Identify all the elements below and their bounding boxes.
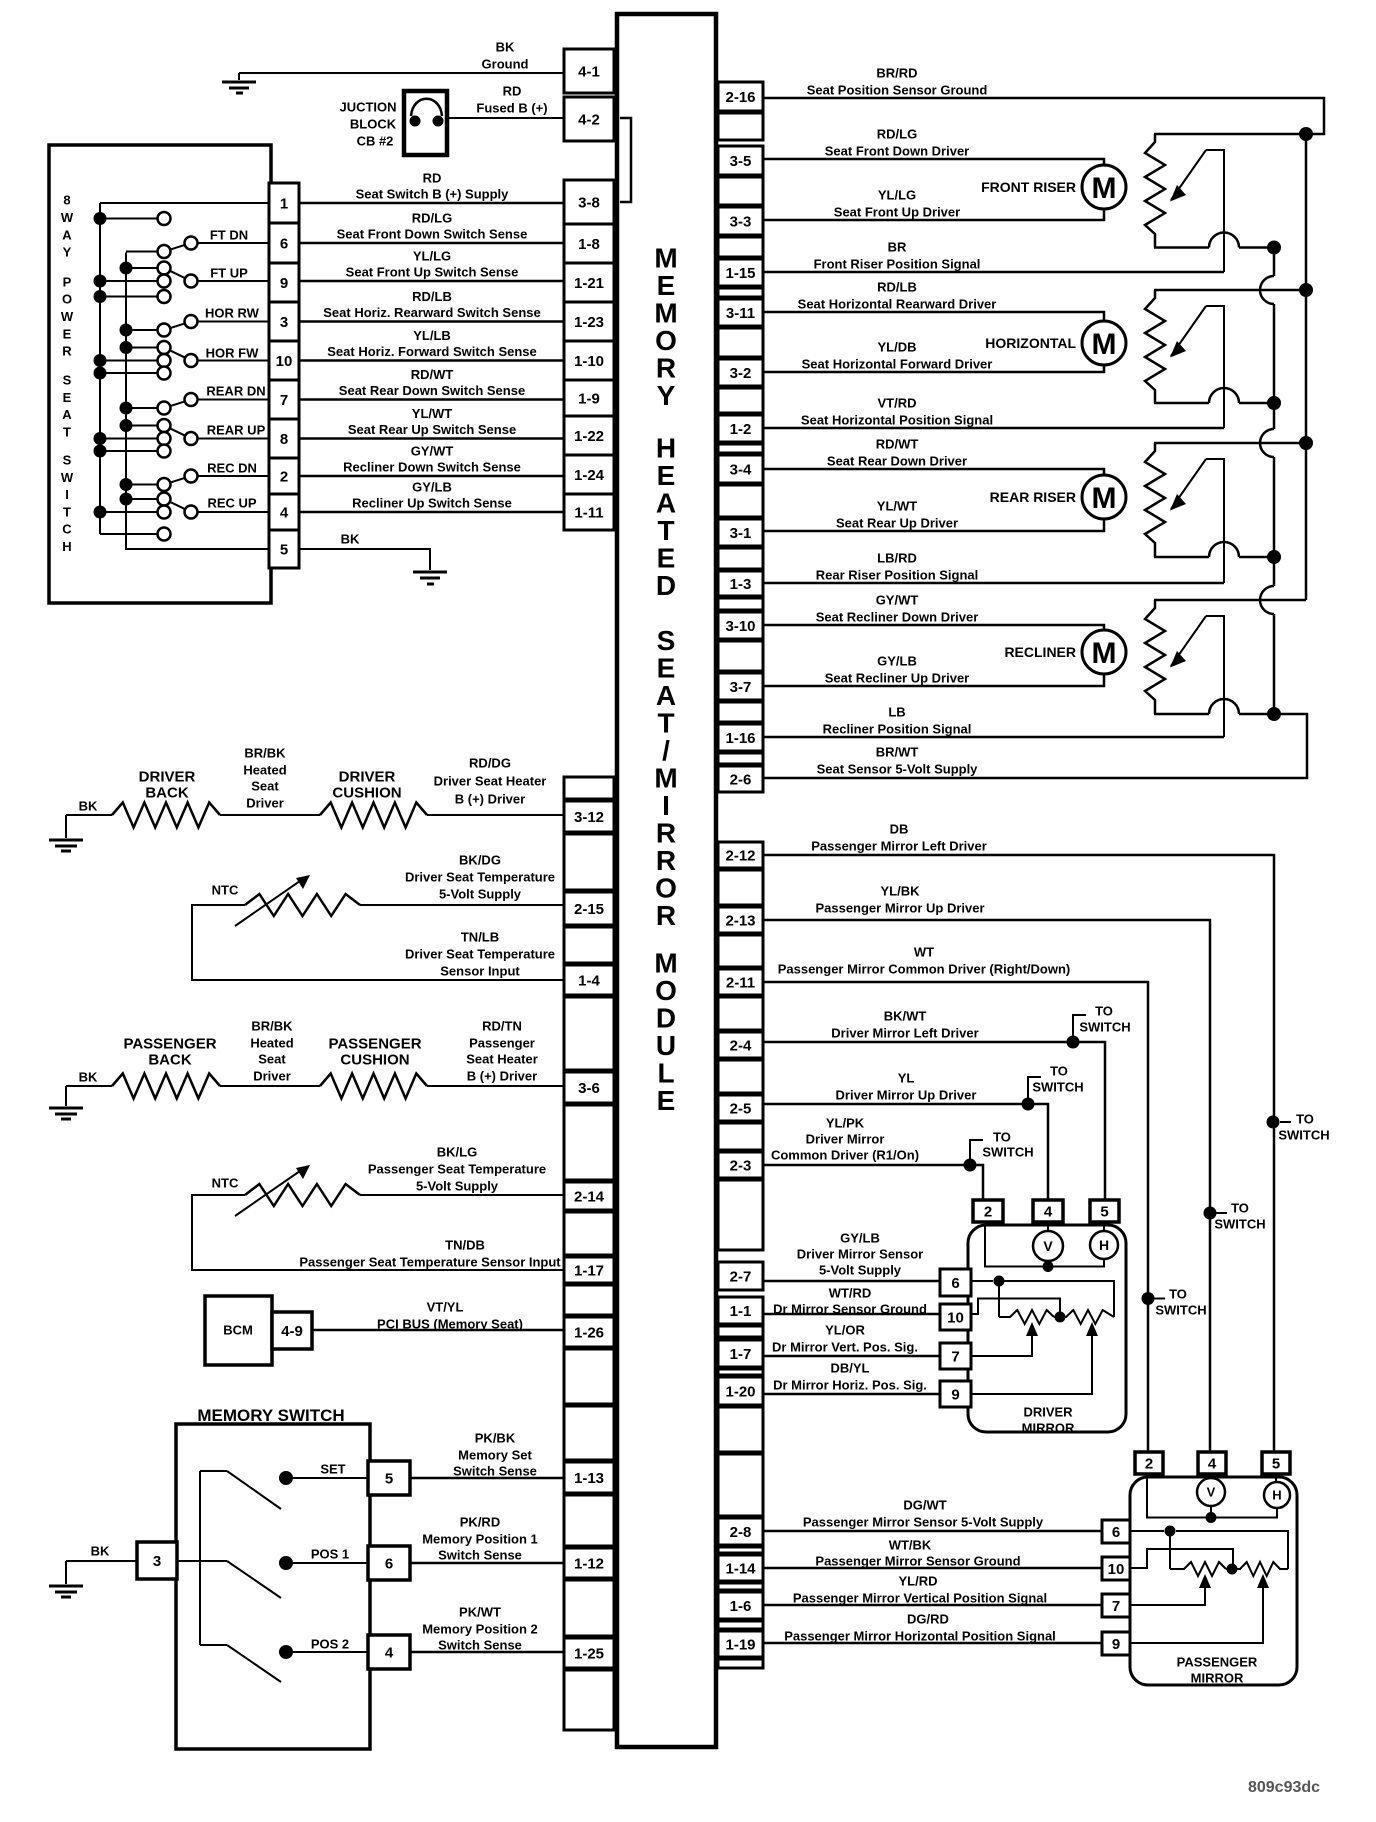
resistor PASSENGER BACK: [112, 1074, 220, 1099]
svg-text:1-15: 1-15: [725, 265, 755, 282]
passenger mirror pin 4: [1198, 1452, 1226, 1474]
svg-text:REAR DN: REAR DN: [206, 384, 265, 399]
svg-text:1-6: 1-6: [730, 1598, 752, 1615]
svg-text:TN/LB: TN/LB: [461, 930, 499, 945]
branch to switch: [964, 1159, 977, 1172]
svg-text:DB: DB: [890, 822, 909, 837]
seat switch pin 6: [269, 223, 299, 263]
module pin 3-10: [718, 612, 763, 639]
wire Seat Horiz. Rearward Switch Sense: [299, 320, 564, 323]
svg-text:6: 6: [385, 1555, 393, 1572]
svg-text:3-7: 3-7: [730, 679, 752, 696]
module pin 1-17: [564, 1257, 614, 1283]
svg-text:I: I: [65, 487, 69, 502]
svg-text:1-19: 1-19: [725, 1636, 755, 1653]
sensor wiper REAR RISER: [1171, 459, 1206, 509]
module pin 4-2: [564, 97, 614, 141]
svg-text:YL/PK: YL/PK: [826, 1116, 865, 1131]
position sensor resistor REAR RISER: [1154, 442, 1306, 445]
svg-text:RD: RD: [503, 84, 522, 99]
svg-text:DRIVER: DRIVER: [1023, 1405, 1073, 1420]
svg-text:/: /: [662, 735, 670, 766]
junction node: [1267, 396, 1281, 410]
svg-text:DRIVER: DRIVER: [139, 768, 196, 785]
svg-text:RD/TN: RD/TN: [482, 1019, 522, 1034]
svg-text:R: R: [656, 353, 676, 384]
svg-text:2-3: 2-3: [730, 1157, 752, 1174]
wire heater mid: [220, 1085, 320, 1087]
svg-text:Seat Rear Up Driver: Seat Rear Up Driver: [836, 516, 958, 531]
sensor wiper RECLINER: [1171, 616, 1206, 666]
svg-text:A: A: [62, 227, 72, 242]
memory switch pin 4: [368, 1635, 410, 1669]
svg-text:BK/WT: BK/WT: [884, 1009, 927, 1024]
svg-text:M: M: [1092, 482, 1117, 515]
sensor ground tap: [1130, 1549, 1233, 1568]
svg-text:7: 7: [1112, 1598, 1120, 1615]
svg-text:YL/RD: YL/RD: [899, 1574, 938, 1589]
jumper 4-2 to 3-8 outside module wall: [620, 118, 631, 202]
svg-text:GY/WT: GY/WT: [411, 444, 454, 459]
svg-text:M: M: [654, 298, 677, 329]
sensor ground tap: [971, 1299, 1060, 1315]
module pin (blank): [718, 1060, 763, 1093]
switch bus 2 (return): [126, 253, 269, 550]
wire GY/LB driver mirror sensor 5-volt supply: [763, 1280, 940, 1283]
svg-text:E: E: [657, 460, 676, 491]
svg-text:1-9: 1-9: [578, 390, 600, 407]
svg-text:TO: TO: [1050, 1064, 1068, 1079]
svg-text:Seat Horizontal Position Signa: Seat Horizontal Position Signal: [801, 413, 993, 428]
svg-text:SWITCH: SWITCH: [1079, 1020, 1130, 1035]
svg-text:SWITCH: SWITCH: [1214, 1217, 1265, 1232]
svg-text:YL/DB: YL/DB: [878, 340, 917, 355]
position sensor resistor RECLINER: [1154, 599, 1306, 602]
module pin (blank): [564, 997, 614, 1070]
svg-text:RD: RD: [423, 171, 442, 186]
module pin (blank): [718, 1659, 763, 1668]
svg-text:Driver: Driver: [246, 796, 284, 811]
wire Seat Horizontal Forward Driver: [763, 365, 1104, 372]
svg-text:YL: YL: [898, 1071, 915, 1086]
wire WT passenger mirror common driver: [763, 982, 1148, 1452]
svg-text:Seat Rear Up Switch Sense: Seat Rear Up Switch Sense: [348, 422, 516, 437]
module pin 1-10: [564, 341, 614, 380]
svg-text:1-10: 1-10: [574, 353, 604, 370]
svg-text:2-15: 2-15: [574, 901, 604, 918]
passenger seat temperature sensor NTC: [245, 1184, 360, 1206]
svg-text:HOR RW: HOR RW: [205, 306, 260, 321]
svg-text:1-25: 1-25: [574, 1645, 604, 1662]
svg-text:D: D: [656, 570, 676, 601]
module pin 3-12: [564, 801, 614, 832]
resistor bottom with crossover hop: [1154, 402, 1209, 405]
switch contacts group rear: [94, 367, 107, 380]
svg-text:JUCTION: JUCTION: [339, 100, 396, 115]
svg-text:WT/BK: WT/BK: [889, 1538, 932, 1553]
svg-text:O: O: [655, 873, 677, 904]
module pin 3-3: [718, 207, 763, 235]
memory switch pin 5: [368, 1461, 410, 1495]
svg-text:1-1: 1-1: [730, 1303, 752, 1320]
svg-text:4: 4: [280, 504, 289, 521]
module pin (blank): [718, 388, 763, 413]
wire pin1 seat switch B+: [100, 202, 269, 204]
svg-text:Seat Front Down Switch Sense: Seat Front Down Switch Sense: [337, 227, 528, 242]
svg-text:POS 1: POS 1: [311, 1547, 349, 1562]
wire YL/RD passenger mirror vertical position signal: [763, 1604, 1102, 1607]
svg-text:R: R: [62, 344, 72, 359]
seat switch pin 3: [269, 302, 299, 341]
NTC arrow: [235, 1171, 300, 1216]
svg-text:Switch Sense: Switch Sense: [438, 1638, 522, 1653]
svg-text:Seat Horizontal Forward Driver: Seat Horizontal Forward Driver: [802, 357, 993, 372]
svg-text:Passenger Seat Temperature: Passenger Seat Temperature: [368, 1162, 546, 1177]
svg-text:Driver Seat Temperature: Driver Seat Temperature: [405, 947, 555, 962]
svg-text:Common Driver (R1/On): Common Driver (R1/On): [771, 1148, 919, 1163]
svg-text:1-23: 1-23: [574, 314, 604, 331]
module pin 1-25: [564, 1638, 614, 1668]
module pin 2-6: [718, 766, 763, 792]
module pin (blank): [564, 1670, 614, 1730]
svg-text:RD/DG: RD/DG: [469, 756, 511, 771]
svg-text:7: 7: [280, 392, 288, 409]
svg-text:Driver Seat Temperature: Driver Seat Temperature: [405, 870, 555, 885]
svg-text:TO: TO: [1296, 1112, 1314, 1127]
svg-text:HORIZONTAL: HORIZONTAL: [985, 335, 1076, 351]
svg-text:10: 10: [947, 1309, 964, 1326]
driver mirror pin 2: [973, 1200, 1003, 1222]
wire DG/RD passenger mirror horizontal position signal: [763, 1642, 1102, 1645]
wire YL/BK passenger mirror up driver: [763, 920, 1210, 1452]
svg-text:S: S: [63, 373, 72, 388]
svg-text:Memory Position 2: Memory Position 2: [422, 1622, 538, 1637]
driver mirror pin 9: [940, 1381, 971, 1407]
module pin (blank): [718, 113, 763, 140]
driver mirror pin 6: [940, 1269, 971, 1296]
svg-text:4: 4: [1044, 1203, 1053, 1220]
motor HORIZONTAL: [1082, 321, 1126, 365]
wire WT/RD dr mirror sensor ground: [763, 1313, 940, 1316]
svg-text:V: V: [1207, 1485, 1216, 1500]
svg-text:1-16: 1-16: [725, 730, 755, 747]
module pin (blank): [718, 485, 763, 517]
svg-text:Passenger: Passenger: [469, 1036, 535, 1051]
svg-text:M: M: [1092, 172, 1117, 205]
svg-text:5-Volt Supply: 5-Volt Supply: [439, 887, 522, 902]
svg-text:1-11: 1-11: [574, 504, 603, 521]
module name vertical text: [654, 243, 677, 1117]
svg-text:Recliner Up Switch Sense: Recliner Up Switch Sense: [352, 496, 512, 511]
svg-text:3-5: 3-5: [730, 153, 752, 170]
svg-text:Driver Seat Heater: Driver Seat Heater: [434, 774, 547, 789]
svg-text:S: S: [657, 625, 676, 656]
svg-text:CB #2: CB #2: [357, 134, 394, 149]
svg-text:1-22: 1-22: [574, 428, 604, 445]
module pin (blank): [718, 548, 763, 569]
svg-text:3-12: 3-12: [574, 809, 604, 826]
svg-text:SWITCH: SWITCH: [982, 1145, 1033, 1160]
motor RECLINER: [1082, 630, 1126, 674]
module pin 2-13: [718, 907, 763, 933]
svg-text:REAR RISER: REAR RISER: [990, 489, 1076, 505]
svg-text:Y: Y: [63, 245, 72, 260]
seat switch pin 1: [269, 183, 299, 223]
module pin 2-14: [564, 1182, 614, 1210]
svg-text:4-1: 4-1: [578, 63, 600, 80]
svg-text:WT: WT: [914, 945, 934, 960]
seat switch pin 2: [269, 458, 299, 494]
wire BR/WT seat sensor 5-volt supply: [763, 714, 1307, 778]
module pin (blank): [718, 1369, 763, 1375]
svg-text:Passenger Mirror Vertical Posi: Passenger Mirror Vertical Position Signa…: [793, 1591, 1047, 1606]
module pin 2-7: [718, 1262, 763, 1290]
module pin 1-1: [718, 1297, 763, 1324]
svg-text:BR/WT: BR/WT: [876, 745, 919, 760]
svg-text:TO: TO: [1169, 1287, 1187, 1302]
svg-text:E: E: [63, 326, 72, 341]
resistor bottom with crossover hop: [1154, 556, 1209, 559]
module pin (blank): [718, 702, 763, 722]
wires contacts to pins: [293, 1477, 368, 1479]
module pin 1-11: [564, 494, 614, 530]
module pin 1-4: [564, 965, 614, 995]
svg-text:FT DN: FT DN: [210, 228, 248, 243]
svg-text:Memory Set: Memory Set: [458, 1448, 532, 1463]
wire YL driver mirror up driver: [763, 1104, 1048, 1200]
module pin (blank): [718, 328, 763, 357]
module pin (blank): [564, 927, 614, 963]
module pin (blank): [718, 870, 763, 905]
module pin (blank): [718, 598, 763, 610]
junction node: [1267, 707, 1281, 721]
svg-text:2-8: 2-8: [730, 1524, 752, 1541]
svg-text:GY/LB: GY/LB: [412, 480, 452, 495]
svg-text:Dr Mirror Vert. Pos. Sig.: Dr Mirror Vert. Pos. Sig.: [772, 1340, 918, 1355]
module pin 2-5: [718, 1095, 763, 1121]
svg-text:GY/WT: GY/WT: [876, 593, 919, 608]
svg-text:5: 5: [385, 1470, 393, 1487]
svg-text:9: 9: [951, 1386, 959, 1403]
svg-text:1-2: 1-2: [730, 421, 752, 438]
position sensor resistor FRONT RISER: [1145, 134, 1165, 248]
svg-text:FT UP: FT UP: [210, 266, 248, 281]
svg-text:1-24: 1-24: [574, 467, 605, 484]
svg-text:7: 7: [951, 1348, 959, 1365]
svg-text:T: T: [63, 504, 71, 519]
svg-text:PK/WT: PK/WT: [459, 1605, 501, 1620]
svg-text:Heated: Heated: [243, 763, 286, 778]
wire YL/OR dr mirror vert pos sig: [763, 1355, 940, 1358]
svg-text:2-12: 2-12: [725, 847, 755, 864]
vert pos wiper arrow: [1130, 1583, 1205, 1605]
driver mirror pin 5: [1090, 1200, 1119, 1222]
svg-text:BR/BK: BR/BK: [251, 1019, 293, 1034]
ground symbol top left: [238, 73, 240, 80]
svg-text:BK/LG: BK/LG: [437, 1145, 477, 1160]
svg-text:O: O: [655, 325, 677, 356]
wire Seat Rear Up Driver: [763, 519, 1104, 531]
svg-text:U: U: [656, 1030, 676, 1061]
module pin 3-11: [718, 299, 763, 326]
svg-text:3-8: 3-8: [578, 194, 600, 211]
driver mirror sensor potentiometers: [971, 1280, 993, 1282]
svg-text:TO: TO: [1231, 1201, 1249, 1216]
module pin 1-12: [564, 1548, 614, 1578]
wire Recliner Down Switch Sense: [299, 475, 564, 478]
svg-text:Passenger Mirror Left Driver: Passenger Mirror Left Driver: [811, 839, 987, 854]
svg-text:5: 5: [280, 541, 288, 558]
svg-text:8: 8: [63, 193, 70, 208]
svg-text:Driver Mirror Left Driver: Driver Mirror Left Driver: [831, 1026, 978, 1041]
svg-text:M: M: [654, 763, 677, 794]
svg-text:MIRROR: MIRROR: [1022, 1421, 1075, 1436]
wire Seat Rear Down Driver: [763, 469, 1104, 475]
svg-text:GY/LB: GY/LB: [877, 654, 917, 669]
module pin (blank): [564, 777, 614, 799]
wire VT/YL PCI bus: [312, 1329, 564, 1332]
svg-text:R: R: [656, 900, 676, 931]
module pin (blank): [718, 935, 763, 967]
svg-text:YL/LB: YL/LB: [413, 328, 451, 343]
svg-text:E: E: [657, 543, 676, 574]
motor common feed from pin 2: [985, 1225, 1104, 1267]
module pin 1-22: [564, 416, 614, 455]
ground symbol heater: [65, 815, 67, 838]
svg-text:1-21: 1-21: [574, 275, 604, 292]
svg-text:NTC: NTC: [212, 883, 239, 898]
sensor supply bus (right) with hops: [1273, 248, 1276, 277]
memory heated seat/mirror module outline: [617, 14, 716, 1747]
junction node: [1267, 550, 1281, 564]
svg-text:3: 3: [153, 1553, 161, 1570]
svg-text:DG/WT: DG/WT: [903, 1498, 946, 1513]
svg-text:1-20: 1-20: [725, 1383, 755, 1400]
module pin 1-24: [564, 455, 614, 494]
motor common feed from pin 2: [1147, 1477, 1277, 1518]
svg-text:2: 2: [280, 468, 288, 485]
svg-text:4: 4: [1208, 1455, 1217, 1472]
svg-text:O: O: [655, 975, 677, 1006]
wire PK/BK memory set switch sense: [410, 1477, 564, 1480]
svg-text:HOR FW: HOR FW: [206, 346, 259, 361]
junction to switch: [1142, 1292, 1155, 1305]
svg-text:RD/LG: RD/LG: [412, 211, 452, 226]
BCM pin 4-9: [272, 1312, 312, 1349]
junction to switch (right): [1267, 1116, 1280, 1129]
svg-text:YL/OR: YL/OR: [825, 1323, 865, 1338]
wire BK/LG 5-volt supply: [360, 1194, 564, 1196]
svg-text:MIRROR: MIRROR: [1191, 1671, 1244, 1686]
svg-text:BK: BK: [496, 40, 515, 55]
svg-text:RD/LB: RD/LB: [877, 280, 917, 295]
svg-text:Seat Horiz. Rearward Switch Se: Seat Horiz. Rearward Switch Sense: [323, 305, 540, 320]
wire Recliner Position Signal: [763, 736, 1224, 739]
position sensor resistor HORIZONTAL: [1154, 289, 1306, 292]
svg-text:1-4: 1-4: [578, 972, 600, 989]
svg-text:1: 1: [280, 195, 288, 212]
horizontal motor H: [1090, 1231, 1118, 1259]
svg-text:3-10: 3-10: [725, 618, 755, 635]
wire Seat Horizontal Position Signal: [763, 427, 1224, 430]
wire BK seat switch ground: [299, 549, 430, 570]
svg-text:Driver Mirror: Driver Mirror: [806, 1132, 885, 1147]
svg-text:RD/LG: RD/LG: [877, 127, 917, 142]
svg-text:1-13: 1-13: [574, 1470, 604, 1487]
module pin (blank): [564, 1212, 614, 1255]
svg-text:E: E: [657, 653, 676, 684]
module pin (blank): [718, 1407, 763, 1452]
svg-text:6: 6: [280, 235, 288, 252]
svg-text:Passenger Mirror Sensor 5-Volt: Passenger Mirror Sensor 5-Volt Supply: [803, 1515, 1044, 1530]
memory switch pin 3: [137, 1542, 177, 1579]
svg-text:O: O: [62, 292, 72, 307]
svg-text:A: A: [656, 488, 676, 519]
svg-text:BK: BK: [341, 532, 360, 547]
wire PK/RD memory position 1 switch sense: [410, 1562, 564, 1565]
module pin 1-15: [718, 259, 763, 286]
svg-text:LB: LB: [888, 705, 905, 720]
svg-text:Seat Rear Down Driver: Seat Rear Down Driver: [827, 454, 967, 469]
horiz pos wiper arrow: [971, 1331, 1092, 1394]
svg-text:6: 6: [951, 1275, 959, 1292]
svg-text:Passenger Mirror Common Driver: Passenger Mirror Common Driver (Right/Do…: [778, 962, 1071, 977]
module pin 1-19: [718, 1631, 763, 1657]
wire PK/WT memory position 2 switch sense: [410, 1651, 564, 1654]
svg-text:H: H: [1272, 1488, 1281, 1503]
svg-text:VT/YL: VT/YL: [427, 1300, 464, 1315]
svg-text:PK/RD: PK/RD: [460, 1515, 500, 1530]
sensor wiper FRONT RISER: [1171, 150, 1206, 200]
wire Seat Front Down Switch Sense: [299, 242, 564, 245]
svg-text:T: T: [657, 708, 674, 739]
svg-text:YL/BK: YL/BK: [881, 884, 921, 899]
module pin 2-8: [718, 1518, 763, 1545]
svg-text:SWITCH: SWITCH: [1278, 1128, 1329, 1143]
svg-text:Sensor Input: Sensor Input: [440, 964, 520, 979]
module pin (blank): [718, 1621, 763, 1629]
wire Seat Horiz. Forward Switch Sense: [299, 359, 564, 362]
8-way power seat switch box: [49, 145, 271, 603]
seat switch pin 4: [269, 494, 299, 530]
wire Seat Rear Down Switch Sense: [299, 398, 564, 401]
wire TN/DB sensor input: [192, 1195, 564, 1270]
NTC arrow: [235, 881, 300, 926]
module pin 1-20: [718, 1377, 763, 1405]
wire DB/YL dr mirror horiz pos sig: [763, 1393, 940, 1396]
svg-text:RD/WT: RD/WT: [876, 437, 919, 452]
module pin (blank): [718, 177, 763, 205]
svg-text:REC UP: REC UP: [207, 496, 256, 511]
svg-text:3-6: 3-6: [578, 1080, 600, 1097]
svg-text:REC DN: REC DN: [207, 461, 257, 476]
vert pos wiper arrow: [971, 1331, 1032, 1356]
svg-text:2-14: 2-14: [574, 1188, 605, 1205]
resistor bottom with crossover hop: [1154, 246, 1209, 249]
memory switch internal bus: [199, 1471, 201, 1645]
svg-text:L: L: [657, 1058, 674, 1089]
svg-text:S: S: [63, 453, 72, 468]
driver mirror pin 7: [940, 1343, 971, 1369]
wire Rear Riser Position Signal: [763, 582, 1224, 585]
svg-text:Seat Switch B (+) Supply: Seat Switch B (+) Supply: [356, 187, 510, 202]
sensor wiper HORIZONTAL: [1171, 306, 1206, 356]
resistor DRIVER BACK: [112, 803, 220, 828]
svg-text:1-12: 1-12: [574, 1555, 604, 1572]
module pin (blank): [718, 753, 763, 764]
module pin 1-13: [564, 1462, 614, 1493]
svg-text:3-3: 3-3: [730, 213, 752, 230]
